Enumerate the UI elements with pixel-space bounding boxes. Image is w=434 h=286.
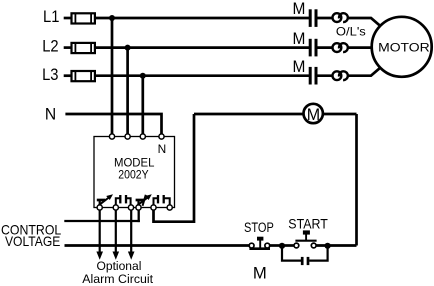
wire node to start bbox=[282, 244, 294, 247]
svg-text:2002Y: 2002Y bbox=[118, 168, 148, 182]
wire L2 dropper bbox=[126, 48, 129, 134]
wire voltage line bbox=[65, 244, 250, 247]
internal contact NO1 bbox=[116, 195, 131, 207]
svg-text:L3: L3 bbox=[42, 65, 58, 84]
svg-text:L1: L1 bbox=[43, 7, 59, 26]
wire row1 to motor bbox=[348, 18, 381, 27]
node L2 junction bbox=[125, 45, 131, 51]
wire stop to node bbox=[270, 244, 282, 247]
wire row2 to motor bbox=[348, 46, 373, 49]
contactor contact M row1 bbox=[293, 0, 317, 27]
wire aux branch bbox=[282, 246, 301, 261]
motor M1 bbox=[372, 17, 432, 77]
pushbutton STOP (NC) bbox=[249, 237, 270, 249]
arrow alarm 2 bbox=[113, 252, 120, 260]
wire L1 dropper bbox=[111, 18, 114, 134]
overload heater OL2 bbox=[333, 43, 348, 52]
aux contact M bbox=[302, 257, 308, 265]
controller box MODEL 2002Y bbox=[94, 137, 175, 208]
svg-text:M: M bbox=[293, 58, 306, 76]
terminal T-bot6 bbox=[167, 205, 172, 210]
arrow alarm 3 bbox=[128, 252, 135, 260]
wire L1 stub bbox=[64, 17, 72, 20]
arrow alarm 1 bbox=[96, 252, 103, 260]
fuse L3 bbox=[72, 71, 95, 81]
svg-text:L2: L2 bbox=[42, 37, 58, 56]
wire alarm lead 3 bbox=[130, 210, 132, 252]
node after START bbox=[325, 243, 331, 249]
internal alarm contact NC2 bbox=[136, 194, 152, 207]
overload heater OL3 bbox=[333, 71, 348, 80]
svg-text:N: N bbox=[45, 106, 56, 124]
coil M bbox=[304, 104, 323, 124]
wire aux branch right bbox=[309, 246, 327, 261]
node L1 junction bbox=[109, 15, 115, 21]
terminal T-bot1 bbox=[97, 205, 102, 210]
terminal T-bot5 bbox=[151, 205, 156, 210]
svg-text:MOTOR: MOTOR bbox=[378, 40, 430, 54]
wire alarm lead 2 bbox=[115, 210, 117, 252]
svg-text:M: M bbox=[307, 105, 320, 124]
contactor contact M row3 bbox=[293, 58, 317, 84]
svg-text:M: M bbox=[293, 0, 306, 18]
wire L2 run bbox=[95, 46, 310, 49]
pushbutton START (NO) bbox=[294, 230, 317, 248]
terminal T-top4 N bbox=[159, 134, 164, 139]
wire start to node bbox=[316, 244, 356, 247]
contactor contact M row2 bbox=[293, 30, 317, 56]
svg-text:O/L's: O/L's bbox=[336, 25, 366, 39]
wire L2 stub bbox=[64, 46, 72, 49]
svg-text:STOP: STOP bbox=[244, 220, 274, 235]
internal alarm contact NC1 bbox=[97, 194, 113, 207]
wire coil top line left bbox=[194, 113, 304, 116]
overload heater OL1 bbox=[333, 13, 348, 22]
svg-text:M: M bbox=[293, 30, 306, 48]
wire control line bbox=[64, 220, 140, 222]
wire L1 run bbox=[95, 17, 310, 20]
svg-text:START: START bbox=[288, 216, 328, 231]
wire row3 to motor bbox=[348, 67, 381, 76]
wire T-bot5 to coil loop bbox=[154, 114, 195, 222]
fuse L2 bbox=[72, 43, 95, 53]
svg-text:N: N bbox=[158, 142, 167, 156]
terminal T-bot4 bbox=[136, 205, 141, 210]
node before START bbox=[279, 243, 285, 249]
svg-text:Alarm Circuit: Alarm Circuit bbox=[82, 272, 153, 286]
terminal T-top3 bbox=[140, 134, 145, 139]
node L3 junction bbox=[140, 73, 146, 79]
fuse L1 bbox=[72, 13, 95, 23]
internal contact NO2 bbox=[154, 195, 170, 207]
svg-text:VOLTAGE: VOLTAGE bbox=[5, 234, 60, 249]
terminal T-top1 bbox=[109, 134, 114, 139]
wire T-bot4 drop bbox=[138, 210, 140, 222]
terminal T-bot3 bbox=[128, 205, 133, 210]
wire L3 dropper bbox=[141, 76, 144, 134]
wire row3 after contact bbox=[316, 74, 332, 77]
wire N run bbox=[65, 114, 161, 134]
wire row1 after contact bbox=[316, 17, 332, 20]
wire L3 run bbox=[95, 74, 310, 77]
svg-text:M: M bbox=[253, 264, 267, 283]
wire right vertical bbox=[355, 114, 358, 246]
wire row2 after contact bbox=[316, 46, 332, 49]
wire L3 stub bbox=[64, 74, 72, 77]
wire alarm lead 1 bbox=[99, 210, 101, 252]
terminal T-top2 bbox=[125, 134, 130, 139]
wire coil top line right bbox=[323, 113, 357, 116]
terminal T-bot2 bbox=[113, 205, 118, 210]
